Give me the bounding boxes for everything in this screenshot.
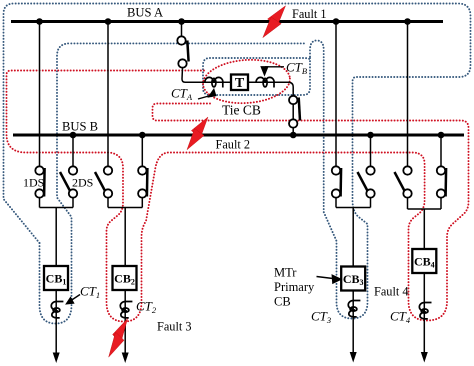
disconnect f3B open blade: [358, 172, 368, 191]
red ellipse around tie CTs: [202, 57, 292, 106]
tie upper switch circles: [177, 36, 186, 67]
wire f3 below CB3: [352, 291, 354, 355]
tie lower switch circles: [289, 96, 297, 128]
arrow to CB3 (MTr): [317, 275, 341, 283]
svg-text:Primary: Primary: [274, 280, 315, 294]
wire f2 stem: [124, 208, 126, 267]
wire f4 stubs: [407, 198, 409, 210]
wire f1 below CB1: [55, 290, 57, 354]
feeder3 load arrow: [350, 352, 357, 363]
CT4 coil: [419, 303, 431, 319]
wire f1 stubs: [39, 198, 41, 208]
wire f3 busA drop: [335, 22, 337, 167]
svg-text:2DS: 2DS: [72, 176, 93, 190]
feeder1 load arrow: [53, 353, 60, 364]
disconnect f2A circles: [104, 166, 112, 197]
zone B boundary (red dotted protection zone around BUS B): [7, 57, 469, 321]
tie upper closed blade: [187, 41, 188, 62]
svg-text:Fault 1: Fault 1: [292, 7, 327, 21]
breaker CB2: [113, 266, 137, 290]
svg-text:CT4: CT4: [390, 309, 411, 326]
svg-text:1DS: 1DS: [23, 176, 44, 190]
disconnect f2B circles: [138, 166, 146, 197]
wire tie mid circles: [292, 104, 294, 120]
svg-text:CT2: CT2: [136, 299, 157, 316]
node on BUS B f4: [438, 132, 445, 139]
wire f1 bracket: [40, 207, 74, 209]
wire tie horizontal mid: [248, 81, 290, 83]
disconnect f4B closed blade: [444, 168, 447, 197]
feeder2 wires and switches: [108, 22, 142, 355]
disconnect 1DS closed blade: [43, 168, 46, 197]
CT2 coil: [120, 302, 132, 318]
wire f1 stem: [55, 208, 57, 267]
breaker CB4: [412, 249, 436, 273]
svg-text:CT1: CT1: [80, 284, 100, 301]
BUS B: [13, 134, 464, 137]
svg-text:CT3: CT3: [311, 309, 331, 326]
feeder3 wires and switches: [336, 22, 371, 355]
relay T box: [231, 75, 248, 91]
arrow to CT1: [67, 295, 81, 304]
fault 1 lightning bolt: [263, 6, 286, 38]
wire f1 busA drop: [39, 22, 41, 167]
disconnect f3A circles: [332, 166, 340, 197]
svg-text:Fault 2: Fault 2: [216, 138, 251, 152]
breaker CB3: [341, 267, 365, 291]
CT3 coil: [348, 301, 360, 317]
wire f2 stubs: [107, 198, 109, 208]
svg-text:Fault 4: Fault 4: [374, 285, 409, 299]
disconnect 2DS open blade: [60, 172, 70, 191]
disconnect 2DS circles: [69, 166, 77, 197]
wire f4 busA drop: [407, 22, 409, 167]
feeder2 load arrow: [122, 353, 129, 364]
wire f4 bracket: [408, 208, 442, 210]
node on BUS B f2: [139, 132, 146, 139]
node on BUS B tie: [290, 132, 297, 139]
wire f3 bracket: [336, 207, 371, 209]
disconnect f4A open blade: [395, 172, 405, 191]
CT1 coil: [51, 302, 63, 318]
wire f4 below CB4: [423, 273, 425, 354]
wire f2 busA drop: [107, 22, 109, 167]
svg-text:T: T: [235, 76, 245, 91]
feeder1 wires and switches: [40, 22, 74, 355]
disconnect 1DS circles: [35, 166, 43, 197]
node on BUS A f4: [404, 18, 411, 25]
disconnect f3A closed blade: [339, 168, 342, 197]
CT_A coil on tie wire: [205, 77, 223, 87]
node on BUS A f3: [333, 18, 340, 25]
svg-text:BUS B: BUS B: [62, 120, 98, 134]
node on BUS B f3: [367, 132, 374, 139]
disconnect f4B circles: [437, 166, 445, 197]
BUS A: [11, 20, 443, 23]
feeder4 wires and switches: [408, 22, 442, 355]
disconnect f4A circles: [403, 166, 411, 197]
svg-text:MTr: MTr: [274, 266, 297, 280]
svg-text:CTB: CTB: [286, 60, 307, 77]
wire f4 busB drop: [440, 135, 442, 167]
fault 3 lightning bolt: [109, 319, 128, 358]
wire f4 stem: [423, 209, 425, 249]
disconnect f2A open blade: [95, 172, 105, 191]
tie lower closed blade: [299, 98, 300, 121]
wire tie to BUS B: [292, 127, 294, 135]
tie breaker branch: [182, 22, 294, 136]
svg-text:BUS A: BUS A: [127, 6, 163, 20]
wire tie corner down: [288, 82, 293, 96]
feeder4 load arrow: [421, 352, 428, 363]
arrow to CT_A: [198, 90, 216, 100]
breaker CB1: [44, 266, 68, 290]
node on BUS A f1: [36, 18, 43, 25]
node on BUS A tie: [178, 18, 185, 25]
wire tie between circles to horizontal: [182, 68, 231, 83]
fault 2 lightning bolt: [187, 117, 208, 150]
node on BUS B f1: [70, 132, 77, 139]
wire f2 busB drop: [141, 135, 143, 167]
disconnect f2B closed blade: [146, 168, 149, 197]
svg-text:Fault 3: Fault 3: [157, 320, 192, 334]
wire f1 busB drop: [72, 135, 74, 167]
wire f3 busB drop: [370, 135, 372, 167]
wire f3 stem: [352, 208, 354, 267]
disconnect f3B circles: [366, 166, 374, 197]
svg-text:Tie CB: Tie CB: [222, 103, 261, 118]
node on BUS A f2: [105, 18, 112, 25]
wire f2 below CB2: [124, 290, 126, 354]
svg-text:CB: CB: [274, 295, 291, 309]
wire f3 stubs: [335, 198, 337, 208]
wire f2 bracket: [108, 207, 142, 209]
svg-text:CTA: CTA: [171, 86, 193, 103]
wire tie from BUS A: [181, 22, 183, 37]
arrow to CT_B: [261, 67, 284, 75]
CT_B coil on tie wire: [256, 77, 274, 87]
